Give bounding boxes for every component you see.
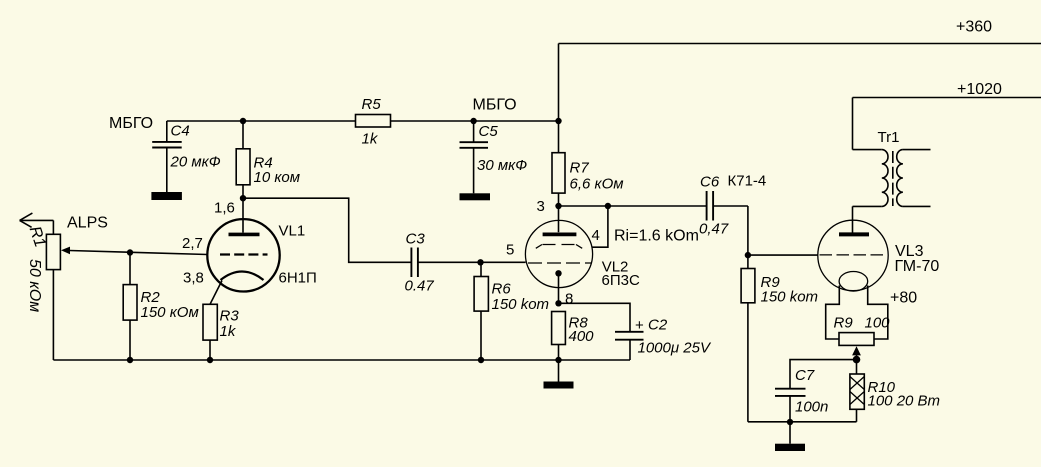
svg-text:150 кОм: 150 кОм <box>141 304 199 321</box>
resistor R9 grid leak <box>741 255 818 422</box>
resistor R10 <box>850 374 940 422</box>
node C7 bottom junction <box>787 419 793 425</box>
wire VL1 anode to C3 <box>243 198 411 262</box>
net +360 rail <box>559 19 1041 122</box>
svg-text:100: 100 <box>865 315 891 332</box>
svg-text:150 kom: 150 kom <box>492 296 550 313</box>
svg-text:10 ком: 10 ком <box>254 169 301 186</box>
wire ground bus bottom <box>53 359 630 361</box>
svg-text:К71-4: К71-4 <box>728 173 767 190</box>
wire R1 wiper to VL1 grid <box>70 251 208 255</box>
node pin 4 junction <box>605 203 611 209</box>
capacitor C5 <box>460 97 528 194</box>
svg-text:50 кОм: 50 кОм <box>26 259 43 312</box>
svg-text:3,8: 3,8 <box>183 270 204 287</box>
svg-text:C7: C7 <box>795 367 815 384</box>
node R2 top junction <box>127 249 133 255</box>
svg-text:4: 4 <box>592 227 600 244</box>
node pin 3 junction <box>555 203 561 209</box>
svg-text:6,6 кОм: 6,6 кОм <box>570 176 624 193</box>
svg-text:C5: C5 <box>479 123 499 140</box>
node R3 bottom <box>207 357 213 363</box>
wiper arrow R1 <box>61 247 70 255</box>
tube VL2 <box>525 206 592 303</box>
svg-text:1k: 1k <box>220 323 237 340</box>
svg-text:ALPS: ALPS <box>67 215 108 232</box>
node pin 8 junction <box>555 300 561 306</box>
svg-text:8: 8 <box>565 291 573 308</box>
svg-text:100n: 100n <box>795 399 828 416</box>
node C5 junction <box>470 118 476 124</box>
svg-text:1k: 1k <box>362 131 379 148</box>
svg-text:R6: R6 <box>492 281 512 298</box>
svg-text:ГМ-70: ГМ-70 <box>895 258 940 275</box>
tube VL3 <box>818 220 888 291</box>
wire bottom right <box>748 421 857 423</box>
svg-text:100 20 Вт: 100 20 Вт <box>868 393 941 410</box>
node R6 bottom <box>478 357 484 363</box>
svg-text:+: + <box>635 317 644 334</box>
resistor R2 <box>123 253 199 361</box>
svg-text:VL1: VL1 <box>279 223 306 240</box>
svg-text:3: 3 <box>537 198 545 215</box>
resistor R6 <box>474 262 549 360</box>
wire anode node VL2 to C6 <box>559 205 707 207</box>
resistor R3 <box>203 281 239 361</box>
svg-text:+80: +80 <box>890 290 917 307</box>
input arrow <box>20 213 54 234</box>
capacitor C3 <box>405 231 435 295</box>
svg-text:0.47: 0.47 <box>405 278 435 295</box>
node R4 bottom junction <box>240 195 246 201</box>
svg-text:+360: +360 <box>956 19 992 36</box>
node hum pot tap <box>853 356 861 364</box>
svg-text:R9: R9 <box>834 315 854 332</box>
svg-text:150 kom: 150 kom <box>761 289 819 306</box>
capacitor C2 <box>559 303 712 360</box>
svg-text:R3: R3 <box>220 308 240 325</box>
wire top B+ bus C4 to R7 <box>167 120 559 122</box>
tube VL1 <box>207 198 279 291</box>
node R7 top junction <box>555 118 561 124</box>
svg-text:C2: C2 <box>648 317 668 334</box>
ground below C4 <box>151 192 182 200</box>
svg-text:C6: C6 <box>700 174 720 191</box>
ground below C7 <box>789 422 791 444</box>
svg-text:Tr1: Tr1 <box>878 129 900 146</box>
resistor R7 <box>552 121 624 206</box>
svg-text:Ri=1.6 kOm: Ri=1.6 kOm <box>614 228 699 245</box>
potentiometer R9 hum balance <box>826 286 890 346</box>
svg-text:+1020: +1020 <box>957 81 1002 98</box>
svg-text:МБГО: МБГО <box>109 115 153 132</box>
resistor R8 <box>552 312 595 361</box>
svg-text:C4: C4 <box>171 123 190 140</box>
resistor R5 <box>356 96 391 148</box>
resistor R4 <box>236 121 300 198</box>
node R8 bottom <box>555 357 561 363</box>
wire screen pin 4 <box>592 206 608 247</box>
svg-text:6Н1П: 6Н1П <box>279 270 317 287</box>
ground below R8 <box>558 360 560 382</box>
svg-text:МБГО: МБГО <box>473 97 517 114</box>
svg-text:R7: R7 <box>570 160 590 177</box>
wire grid VL3 <box>748 254 818 256</box>
capacitor C7 <box>775 360 857 422</box>
svg-text:C3: C3 <box>406 231 426 248</box>
node R6 top junction <box>477 259 483 265</box>
node C6 to R9 junction <box>745 252 751 258</box>
potentiometer R1 <box>26 224 61 312</box>
net +1020 rail <box>853 81 1041 150</box>
svg-text:1000μ 25V: 1000μ 25V <box>638 340 712 357</box>
svg-text:2,7: 2,7 <box>182 235 203 252</box>
capacitor C4 <box>109 115 221 192</box>
wire R1 bottom to bus <box>52 270 54 360</box>
svg-text:0,47: 0,47 <box>699 221 729 238</box>
node R2 bottom <box>127 357 133 363</box>
svg-text:400: 400 <box>569 328 595 345</box>
wire C3 to VL2 grid <box>418 261 526 263</box>
transformer Tr1 <box>853 129 931 234</box>
svg-text:R5: R5 <box>362 96 382 113</box>
svg-text:6П3С: 6П3С <box>602 272 640 289</box>
svg-text:5: 5 <box>506 242 514 259</box>
ground below C5 <box>460 193 491 200</box>
svg-text:30 мкФ: 30 мкФ <box>477 157 527 174</box>
node R4 top junction <box>240 118 246 124</box>
capacitor C6 <box>699 173 766 256</box>
svg-text:1,6: 1,6 <box>214 200 235 217</box>
wiper arrow hum pot <box>852 346 861 355</box>
svg-text:20 мкФ: 20 мкФ <box>170 154 221 171</box>
